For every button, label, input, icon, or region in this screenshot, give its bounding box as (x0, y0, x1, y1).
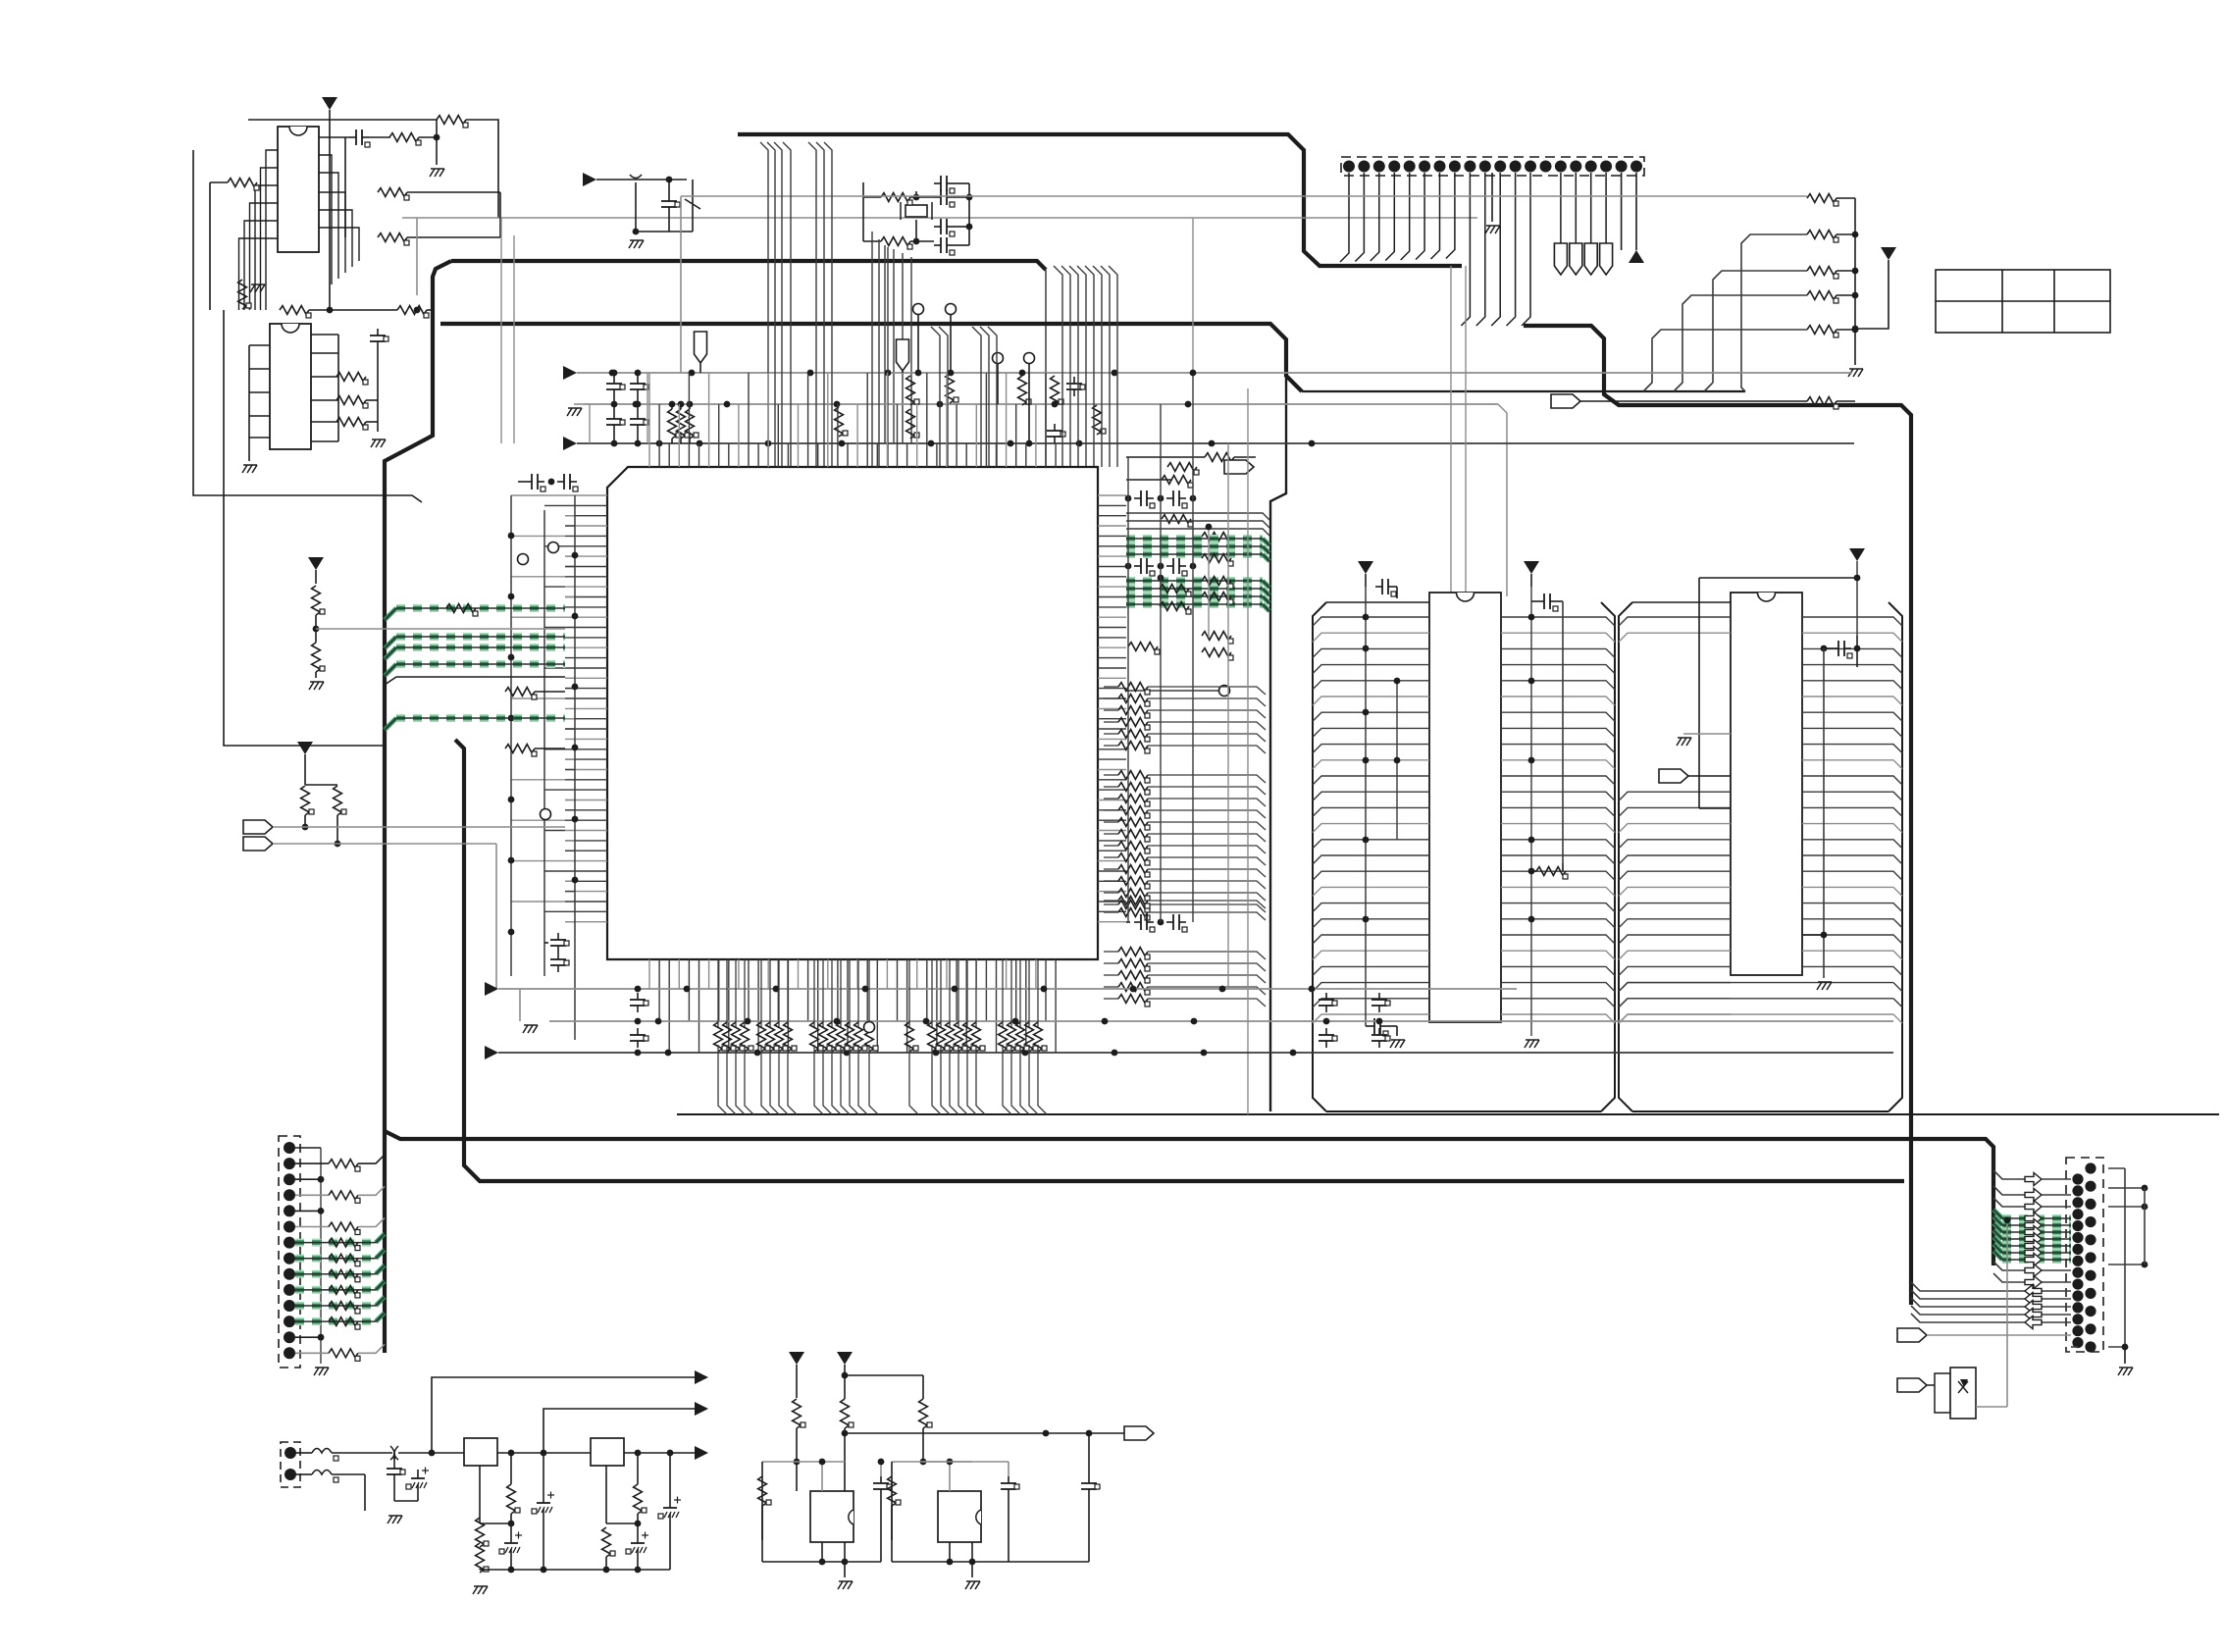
wire (1148, 963, 1266, 971)
resistor R7 (280, 306, 311, 318)
green bus wire (1993, 1230, 2071, 1239)
wire (844, 1490, 846, 1492)
wire (891, 1506, 893, 1562)
junction (807, 370, 814, 377)
wire (1148, 787, 1266, 795)
wire (613, 373, 615, 377)
wire (393, 1481, 395, 1501)
net flag (1551, 394, 1580, 408)
J4 pins (2072, 1162, 2096, 1352)
ground (314, 1368, 329, 1375)
green bus wire (1126, 600, 1263, 608)
wire (680, 404, 682, 409)
junction (1052, 401, 1059, 408)
wire (669, 1523, 671, 1570)
wire (510, 1523, 512, 1534)
wire (248, 438, 250, 461)
junction (548, 479, 555, 486)
capacitor (1081, 1476, 1100, 1496)
arrow rail A (563, 366, 577, 380)
resistor cluster element (828, 1022, 841, 1052)
junction (1206, 524, 1213, 531)
wire (1148, 952, 1266, 959)
wire (358, 1186, 385, 1195)
power up (1629, 250, 1644, 263)
wire (1104, 903, 1118, 905)
wire rail E (549, 1020, 1893, 1022)
wire (376, 1265, 385, 1274)
wire staircase (1674, 295, 1807, 391)
capacitor C7 (934, 237, 955, 255)
wire (358, 1218, 385, 1227)
wire (358, 1155, 385, 1163)
vertical wires bus1 fan to U1 (760, 142, 832, 467)
junction (697, 440, 703, 447)
wire (850, 1045, 858, 1114)
wire rail C (577, 442, 1854, 444)
wire (761, 1045, 770, 1114)
capacitor C2 (370, 329, 388, 348)
open arrow (2025, 1201, 2042, 1213)
resistor (329, 1222, 360, 1234)
wire (315, 615, 317, 643)
ground (388, 1516, 402, 1523)
wire (1148, 822, 1266, 830)
resistor (677, 409, 690, 439)
junction (966, 224, 973, 231)
open pin (1219, 686, 1230, 697)
wire top (248, 119, 412, 121)
wire (1104, 845, 1118, 847)
wire (2042, 1194, 2071, 1196)
junction (1019, 370, 1026, 377)
resistor (476, 1518, 489, 1547)
resistor (668, 409, 681, 439)
wire (671, 404, 673, 409)
connector J2 body (279, 1136, 300, 1368)
junction (1363, 645, 1370, 652)
green bus wire (1993, 1251, 2071, 1260)
resistor pack element (1118, 897, 1150, 908)
resistor (1162, 515, 1193, 527)
junction (684, 986, 691, 993)
wire (1387, 1025, 1397, 1027)
wire (1104, 998, 1118, 1000)
wire (1104, 686, 1118, 688)
wire (831, 959, 833, 1028)
wire (976, 1045, 985, 1114)
wire rail B drop (1498, 404, 1507, 596)
wire (1911, 1306, 2071, 1315)
resistor (505, 688, 537, 699)
wire (954, 226, 969, 228)
wire from bus (385, 677, 565, 685)
resistor (1051, 376, 1063, 405)
vertical wires crystal to U1 (872, 232, 888, 467)
resistor cluster element (854, 1022, 867, 1052)
bus trunk lower horizontal (455, 740, 1904, 1181)
junction (2004, 1217, 2011, 1224)
junction (1363, 709, 1370, 716)
wire (680, 439, 682, 443)
green bus wire (1126, 577, 1263, 585)
green chamfer (1263, 546, 1269, 553)
resistor pack element (1118, 742, 1150, 753)
wire (419, 136, 437, 138)
junction (923, 1018, 930, 1025)
U2 left pin wires (239, 150, 279, 310)
wire (248, 345, 250, 438)
resistor cluster element (775, 1022, 788, 1052)
wire (1531, 600, 1537, 602)
wire (821, 1542, 823, 1562)
wire (1104, 986, 1118, 988)
wire (1927, 1384, 1946, 1386)
junction (572, 745, 579, 751)
green bus wire (385, 664, 565, 676)
wire (427, 309, 433, 311)
open arrow (2025, 1213, 2042, 1225)
wire (544, 942, 548, 944)
wire (315, 570, 317, 584)
wire (745, 1045, 753, 1114)
wire (1104, 951, 1118, 953)
green chamfer (1263, 604, 1269, 611)
wire (1699, 577, 1857, 579)
wire (1557, 600, 1563, 602)
wire (1263, 581, 1269, 588)
wire (1837, 400, 1855, 402)
power V5 (1358, 561, 1373, 574)
junction (302, 824, 309, 831)
open arrow (2025, 1265, 2042, 1277)
wire (1002, 959, 1004, 1028)
wire (1837, 329, 1855, 331)
junction (1323, 1018, 1330, 1025)
wire (407, 236, 500, 238)
ground (430, 169, 444, 177)
resistor (1167, 463, 1199, 475)
wire (857, 959, 859, 1028)
junction (834, 1018, 841, 1025)
J1 pin 19 wire (1621, 173, 1623, 250)
wire (1104, 774, 1118, 776)
right mid horizontal wire (1126, 690, 1218, 692)
capacitor (387, 1462, 405, 1481)
wire (1126, 456, 1205, 458)
wire (1263, 539, 1269, 545)
wire (736, 1045, 745, 1114)
junction (1528, 837, 1535, 844)
junction (933, 1050, 940, 1057)
wire staircase (1643, 330, 1807, 391)
capacitor (1066, 377, 1085, 396)
green bus wire (295, 1255, 376, 1263)
resistor (1162, 476, 1193, 488)
wire (1037, 959, 1039, 1028)
bus trunk bottom horizontal (385, 1131, 1993, 1265)
wire (295, 1147, 321, 1149)
capacitor (550, 953, 569, 972)
junction (633, 229, 640, 235)
resistor pack element (1118, 706, 1150, 718)
wire (535, 691, 565, 693)
junction (508, 715, 515, 722)
power V2 (1881, 247, 1896, 260)
capacitor C3 (661, 194, 680, 214)
capacitor (1375, 579, 1396, 596)
junction (572, 877, 579, 884)
junction (1102, 1018, 1109, 1025)
wire (1008, 1462, 1009, 1476)
wire (915, 191, 917, 197)
memory left group right wires (1501, 617, 1615, 1023)
junction (1158, 495, 1164, 502)
left pin extension wires (511, 495, 575, 922)
wire (869, 1045, 878, 1114)
junction (834, 401, 841, 408)
electrolytic capacitor (658, 1497, 681, 1523)
wire (637, 432, 639, 443)
U1 bottom pin comb (649, 959, 1056, 1053)
junction (635, 401, 642, 408)
wire rail D (498, 988, 1517, 990)
resistor (329, 1269, 360, 1281)
resistor pack element (1118, 683, 1150, 695)
junction (434, 134, 440, 141)
wire (1837, 197, 1855, 199)
resistor (329, 1191, 360, 1203)
capacitor (1134, 558, 1155, 576)
J1 wires to bus (1340, 173, 1455, 262)
wire (844, 1375, 846, 1399)
wire (1856, 636, 1858, 648)
wire (1126, 479, 1172, 481)
junction (1043, 1430, 1050, 1437)
wire (1699, 807, 1731, 809)
wire (680, 196, 682, 373)
wire (1088, 1496, 1090, 1562)
wire (315, 672, 317, 678)
wire (1148, 999, 1266, 1007)
green bus wire (1993, 1216, 2071, 1225)
capacitor (630, 1028, 648, 1048)
resistor (1202, 577, 1233, 589)
junction (1821, 932, 1828, 939)
resistor (505, 745, 537, 756)
resistor R10 (336, 396, 368, 408)
junction (920, 1459, 927, 1466)
junction (1125, 495, 1132, 502)
wire (1148, 734, 1266, 742)
green chamfer (1263, 539, 1269, 545)
resistor (888, 1476, 901, 1506)
wire (1148, 904, 1266, 912)
U4 VCC wire (1365, 587, 1367, 1026)
wire (1009, 1561, 1089, 1563)
resistor ladder R5 (1807, 397, 1838, 409)
junction (635, 1018, 642, 1025)
wire (727, 1045, 736, 1114)
junction (1394, 678, 1401, 685)
capacitor C4 (934, 176, 955, 193)
wire (844, 1562, 846, 1577)
junction (1943, 1382, 1950, 1389)
resistor (906, 409, 919, 439)
junction (947, 1559, 954, 1566)
U1 left pin comb (565, 495, 607, 922)
arrow input VIN (583, 173, 596, 186)
wire (844, 1433, 846, 1491)
power V4 (297, 742, 313, 754)
junction (508, 929, 515, 936)
resistor R2 (228, 179, 259, 190)
green bus wire (295, 1270, 376, 1278)
junction (678, 401, 685, 408)
resistor (329, 1254, 360, 1265)
wire (1104, 721, 1118, 723)
green chamfer (1263, 596, 1269, 603)
net flag (243, 837, 273, 851)
junction (1528, 757, 1535, 764)
net flag (1897, 1378, 1927, 1392)
wire (637, 1523, 639, 1534)
power V8 (837, 1352, 853, 1365)
wire (845, 1432, 1124, 1434)
arrow rail F (485, 1046, 498, 1059)
junction (666, 177, 673, 183)
connector J3 body (281, 1442, 300, 1487)
wire (1395, 586, 1397, 588)
wire (1038, 1045, 1047, 1114)
resistor (946, 374, 958, 403)
junction (948, 370, 955, 377)
wire outline left (193, 150, 422, 502)
resistor (329, 1349, 360, 1361)
junction (508, 594, 515, 600)
wire (417, 1493, 419, 1501)
wire (699, 363, 701, 373)
test point (993, 353, 1004, 364)
green bus wire (295, 1239, 376, 1247)
resistor cluster element (865, 1022, 878, 1052)
junction (318, 1176, 325, 1183)
U3 left pin wires (249, 345, 270, 438)
resistor (1202, 533, 1233, 544)
J3 pins (285, 1447, 296, 1459)
wire (510, 1514, 512, 1523)
wire (923, 1461, 1009, 1463)
ground (309, 682, 324, 690)
junction (1376, 1018, 1383, 1025)
ground (567, 408, 582, 416)
wire (1688, 775, 1731, 777)
wire (1104, 962, 1118, 964)
junction (667, 1450, 674, 1457)
resistor cluster element (784, 1022, 797, 1052)
junction (1528, 868, 1535, 875)
wire (1104, 868, 1118, 870)
U1 top pin comb (649, 373, 1056, 467)
resistor cluster element (906, 1022, 918, 1052)
wire (1010, 959, 1012, 1028)
wire (1029, 1045, 1038, 1114)
net flag (1659, 769, 1688, 783)
junction (1290, 1050, 1297, 1057)
junction (1528, 678, 1535, 685)
wire (849, 959, 851, 1028)
resistor (686, 409, 699, 439)
capacitor (1368, 1018, 1388, 1036)
wire (1993, 1186, 2025, 1195)
wire (1104, 821, 1118, 823)
arrow rail D (485, 982, 498, 996)
wire (814, 1045, 823, 1114)
wire (689, 404, 691, 409)
green bus wire (295, 1286, 376, 1294)
wire (1104, 900, 1118, 902)
wire (519, 989, 521, 1021)
memory group outline mid (1601, 602, 1615, 1111)
J1 pins (1343, 161, 1642, 173)
wire (1104, 709, 1118, 711)
wire (1823, 648, 1825, 978)
wire (788, 1045, 797, 1114)
memory right group right wires (1619, 617, 1902, 1023)
memo table (1936, 270, 2110, 333)
vertical wires header to U1 (1054, 266, 1117, 467)
resistor pack element (1118, 730, 1150, 742)
microcontroller U1 (607, 467, 1098, 959)
memory left group wires (1313, 617, 1429, 1023)
junction (1854, 645, 1861, 652)
wire (954, 244, 969, 246)
memory group outline left (1313, 602, 1326, 1111)
wire (823, 1045, 832, 1114)
wire (1126, 521, 1269, 528)
wire (761, 1506, 763, 1562)
wire (1365, 574, 1367, 587)
wire (295, 1162, 329, 1164)
junction (1112, 1050, 1118, 1057)
wire (1008, 1496, 1009, 1562)
green bus wire (1126, 585, 1263, 593)
ground (1817, 982, 1832, 990)
junction (541, 1567, 547, 1574)
resistor cluster element (1025, 1022, 1038, 1052)
junction (1852, 268, 1859, 275)
net flag (1897, 1328, 1927, 1342)
resistor pack element (1118, 889, 1150, 901)
junction (1041, 986, 1048, 993)
resistor pack element (1118, 783, 1150, 795)
junction (819, 1459, 826, 1466)
wire (1580, 400, 1807, 402)
wire (480, 1523, 511, 1524)
resistor cluster element (1016, 1022, 1029, 1052)
junction (765, 440, 772, 447)
resistor cluster element (928, 1022, 941, 1052)
wire (1148, 799, 1266, 806)
capacitor (550, 933, 569, 953)
wire rail F (498, 1052, 1893, 1054)
ground (473, 1586, 488, 1594)
net flag (1554, 243, 1567, 275)
resistor ladder R1 (1807, 231, 1838, 242)
resistor (1202, 593, 1233, 604)
open arrow (2025, 1316, 2042, 1329)
wire (376, 1234, 385, 1243)
